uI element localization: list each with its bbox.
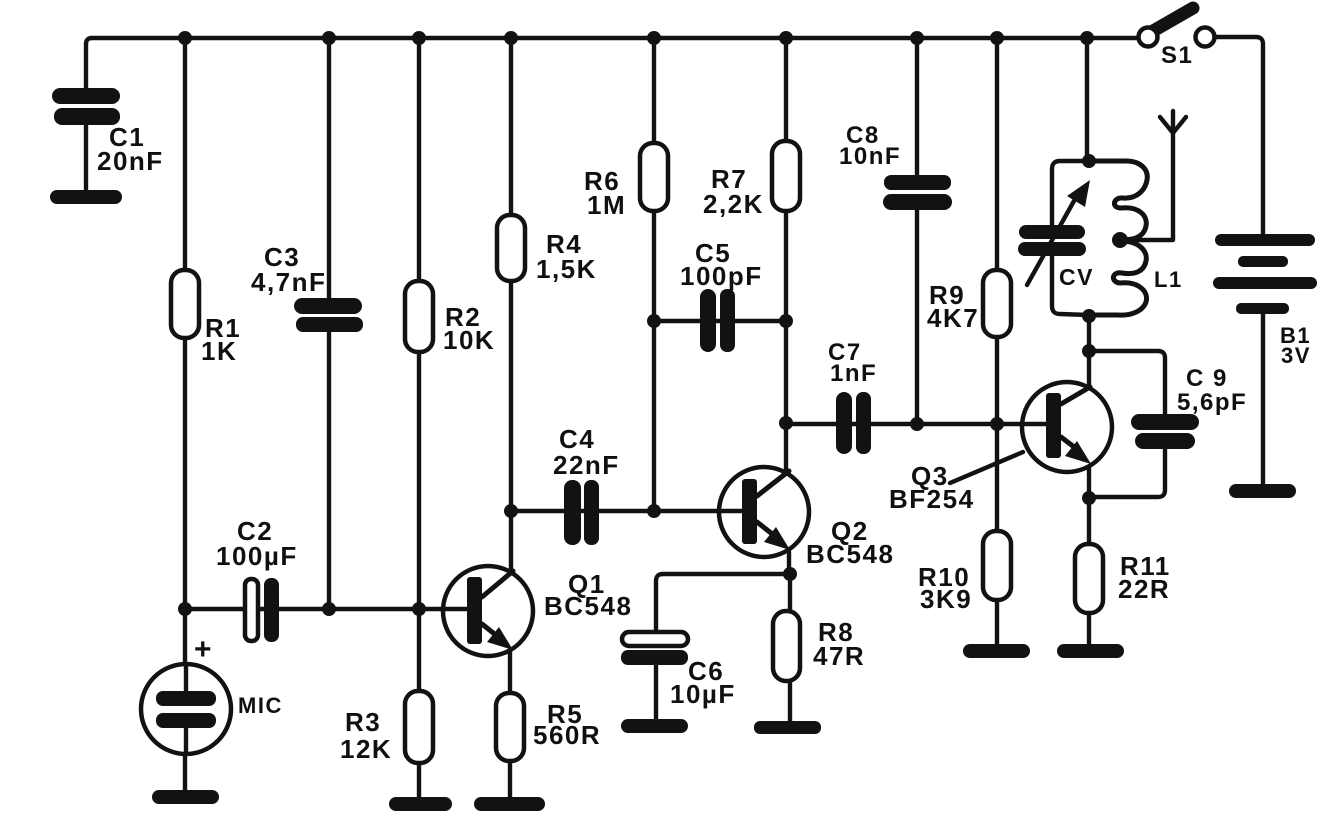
svg-text:22R: 22R <box>1118 574 1170 604</box>
wire S1 to battery <box>1215 37 1263 235</box>
ground below R10 <box>963 644 1030 658</box>
label C2 <box>216 516 298 571</box>
svg-text:BF254: BF254 <box>889 484 975 514</box>
svg-text:L1: L1 <box>1154 267 1183 292</box>
label Q3 with pointer <box>889 452 1023 514</box>
svg-text:2,2K: 2,2K <box>703 189 764 219</box>
svg-text:10nF: 10nF <box>839 143 901 170</box>
svg-text:20nF: 20nF <box>97 146 164 176</box>
capacitor C7 <box>836 392 871 454</box>
node L1 tap <box>1112 232 1128 248</box>
ground below R8 <box>754 721 821 734</box>
label C1 <box>97 122 164 176</box>
wire Q2 emitter node <box>789 552 790 612</box>
node rail C8 <box>910 31 924 45</box>
node C7 C8 <box>910 417 924 431</box>
label plus sign <box>194 633 213 666</box>
svg-text:5,6pF: 5,6pF <box>1177 389 1247 416</box>
switch S1 <box>1139 8 1215 47</box>
node C4 right <box>647 504 661 518</box>
label R2 <box>443 302 495 355</box>
ground below B1 <box>1229 484 1296 498</box>
node rail R9 <box>990 31 1004 45</box>
label Q2 <box>806 516 894 569</box>
label R7 <box>703 164 764 219</box>
wire C6 branch <box>656 574 790 633</box>
wire R4 / Q1 collector column <box>509 38 513 572</box>
wire R2 column <box>417 38 421 609</box>
wire C8 column <box>915 38 919 424</box>
transistor Q1 <box>443 566 533 656</box>
node C5 left <box>647 314 661 328</box>
label R3 <box>340 707 392 764</box>
resistor R4 <box>497 215 525 281</box>
wire C9 bottom link <box>1089 449 1165 497</box>
wire node to Q2 base <box>654 509 742 513</box>
battery B1 <box>1213 234 1317 314</box>
label L1 <box>1154 267 1183 292</box>
ground below MIC <box>152 790 219 804</box>
transistor Q2 <box>719 467 809 557</box>
label MIC <box>238 693 283 718</box>
node rail C3 <box>322 31 336 45</box>
node rail R4 <box>504 31 518 45</box>
capacitor C2 electrolytic <box>245 578 279 642</box>
wire antenna feed <box>1120 131 1173 240</box>
node mic wire R2 <box>412 602 426 616</box>
node mic wire C3 <box>322 602 336 616</box>
label Q1 <box>544 569 632 621</box>
capacitor C6 electrolytic <box>621 632 688 665</box>
antenna <box>1160 111 1186 133</box>
resistor R9 <box>983 270 1011 337</box>
wire Q3 collector to tank <box>1087 316 1091 387</box>
node Q2 emitter <box>783 567 797 581</box>
capacitor C4 <box>564 480 599 545</box>
wire C6 to ground <box>654 664 658 721</box>
svg-text:CV: CV <box>1059 264 1094 290</box>
node C4 left <box>504 504 518 518</box>
node C9 top <box>1082 344 1096 358</box>
label R10 <box>918 562 972 614</box>
node Q3 emitter <box>1082 491 1096 505</box>
svg-text:3V: 3V <box>1281 343 1311 368</box>
svg-text:47R: 47R <box>813 641 865 671</box>
node rail R7 <box>779 31 793 45</box>
wire battery to ground <box>1261 314 1265 486</box>
svg-text:560R: 560R <box>533 720 601 750</box>
svg-text:+: + <box>194 633 213 666</box>
svg-text:R3: R3 <box>345 707 381 737</box>
label R11 <box>1118 551 1171 604</box>
ground below R11 <box>1057 644 1124 658</box>
capacitor C9 <box>1131 414 1199 449</box>
resistor R8 <box>773 611 800 681</box>
label C5 <box>680 238 763 291</box>
node C7 left <box>779 416 793 430</box>
label R1 <box>201 313 241 366</box>
node tank top <box>1082 154 1096 168</box>
resistor R5 <box>496 693 524 761</box>
wire C3 column <box>327 38 331 609</box>
node rail R6 <box>647 31 661 45</box>
resistor R7 <box>772 141 800 211</box>
label R5 <box>533 699 601 750</box>
label C9 <box>1177 365 1247 416</box>
ground below R3 <box>389 797 452 811</box>
ground below C6 <box>621 719 688 733</box>
svg-text:10K: 10K <box>443 325 495 355</box>
label R4 <box>536 229 597 284</box>
node tank bottom <box>1082 309 1096 323</box>
svg-text:1M: 1M <box>587 190 626 220</box>
wire Q3 emitter node <box>1087 466 1091 646</box>
resistor R11 <box>1075 544 1103 613</box>
resistor R3 <box>405 691 433 763</box>
ground below R5 <box>474 797 545 811</box>
node rail R2 <box>412 31 426 45</box>
wire R7 / Q2 collector column <box>784 38 788 472</box>
svg-text:MIC: MIC <box>238 693 283 718</box>
svg-text:BC548: BC548 <box>544 591 632 621</box>
node rail R1 <box>178 31 192 45</box>
microphone MIC <box>141 664 231 754</box>
svg-text:100µF: 100µF <box>216 541 298 571</box>
label C8 <box>839 122 901 170</box>
wire top supply rail <box>86 38 1138 92</box>
capacitor C1 <box>52 88 120 192</box>
wire MIC column <box>183 609 187 791</box>
label C4 <box>553 424 620 480</box>
label R6 <box>584 166 626 220</box>
label CV <box>1059 264 1094 290</box>
label R9 <box>927 280 979 333</box>
wire R10 branch <box>995 424 999 646</box>
svg-text:4K7: 4K7 <box>927 303 979 333</box>
label C6 <box>670 656 736 709</box>
capacitor C3 <box>294 298 363 332</box>
ground below C1 <box>50 190 122 204</box>
label R8 <box>813 617 865 671</box>
svg-text:12K: 12K <box>340 734 392 764</box>
wire C9 top link <box>1089 351 1165 414</box>
capacitor C5 <box>700 289 735 352</box>
svg-text:S1: S1 <box>1161 42 1193 69</box>
svg-text:22nF: 22nF <box>553 450 620 480</box>
wire R9 column <box>995 38 999 424</box>
variable capacitor CV <box>1018 161 1090 315</box>
node rail tank <box>1080 31 1094 45</box>
node mic wire left <box>178 602 192 616</box>
inductor L1 <box>1089 161 1147 315</box>
wire R1 column <box>183 38 187 609</box>
node C7 R9 <box>990 417 1004 431</box>
wire tank top column <box>1085 38 1089 161</box>
label C3 <box>251 242 326 297</box>
wire C5 link <box>654 319 786 323</box>
transistor Q3 <box>1022 382 1112 472</box>
svg-text:100pF: 100pF <box>680 261 763 291</box>
wire R3 bottom <box>417 609 421 799</box>
resistor R2 <box>405 281 433 352</box>
label B1 <box>1280 323 1311 368</box>
svg-text:BC548: BC548 <box>806 539 894 569</box>
label C7 <box>828 339 877 387</box>
svg-text:1,5K: 1,5K <box>536 254 597 284</box>
wire base wire to Q1 at bottom <box>185 607 445 611</box>
wire Q1 emitter to R5 <box>508 650 512 799</box>
resistor R1 <box>171 270 199 338</box>
svg-text:4,7nF: 4,7nF <box>251 267 326 297</box>
svg-text:C 9: C 9 <box>1186 365 1228 392</box>
capacitor C8 <box>883 175 952 210</box>
label S1 <box>1161 42 1193 69</box>
svg-text:1K: 1K <box>201 336 237 366</box>
resistor R6 <box>640 143 668 211</box>
wire R8 to ground <box>788 682 792 723</box>
svg-text:1nF: 1nF <box>830 360 877 387</box>
wire C4 coupling <box>511 509 654 513</box>
wire R6 column <box>652 38 656 511</box>
svg-text:10µF: 10µF <box>670 679 736 709</box>
node C5 right <box>779 314 793 328</box>
resistor R10 <box>983 531 1011 600</box>
svg-text:3K9: 3K9 <box>920 584 972 614</box>
wire C7 link to Q3 base <box>786 422 1048 426</box>
